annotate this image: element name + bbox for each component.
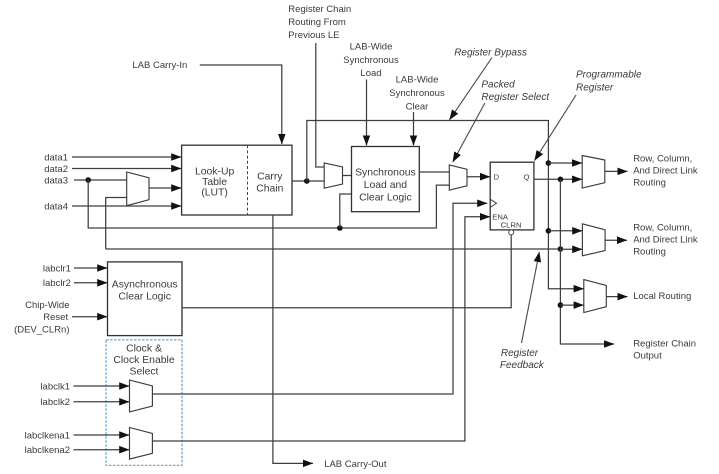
svg-text:data2: data2 [44, 164, 68, 175]
wire: clock enable to register ENA [152, 217, 490, 441]
svg-text:data1: data1 [44, 152, 68, 163]
label: Look-Up Table (LUT) [195, 167, 234, 199]
svg-text:Register: Register [576, 83, 614, 94]
wire: register chain input from previous LE [316, 43, 324, 167]
label: Register Chain Routing From Previous LE [288, 4, 351, 41]
svg-text:Q: Q [524, 173, 530, 182]
svg-text:Previous LE: Previous LE [288, 30, 339, 41]
wire: data3 input [74, 179, 127, 181]
junction: Q output node [558, 177, 564, 183]
mux: packed register select [449, 165, 467, 190]
svg-text:Table: Table [202, 177, 227, 188]
wire: packed mux output to register D [467, 176, 490, 178]
svg-text:(LUT): (LUT) [201, 188, 228, 199]
mux: output mux 3 (local routing) [584, 280, 607, 313]
svg-text:Register Chain: Register Chain [288, 4, 351, 15]
wire: labclr2 input [74, 282, 107, 284]
wire: branch up into sync load and clear logic [340, 194, 352, 228]
svg-text:data4: data4 [44, 201, 68, 212]
svg-text:Reset: Reset [43, 312, 68, 323]
svg-text:Clear: Clear [406, 101, 429, 112]
junction: registered output to mux3 [558, 302, 564, 308]
svg-text:Output: Output [633, 351, 662, 362]
wire: data3 branch to sync load data line [88, 180, 449, 228]
mux: clock enable select [130, 428, 153, 460]
svg-text:Clear Logic: Clear Logic [118, 292, 171, 303]
svg-text:data3: data3 [44, 175, 68, 186]
mux: data3/data4 input select [127, 172, 149, 206]
svg-text:Feedback: Feedback [500, 360, 545, 371]
svg-text:And Direct Link: And Direct Link [633, 166, 698, 177]
wire: register feedback to input mux [106, 198, 127, 250]
junction: sync data node [337, 225, 343, 231]
wire: Q output to mux1 [534, 178, 582, 180]
wire: registered output vertical [560, 179, 614, 344]
svg-text:Programmable: Programmable [576, 70, 642, 81]
wire: feedback branch into output mux 2 [560, 248, 582, 250]
annotation arrow: register bypass pointer [450, 58, 493, 120]
svg-text:Clock Enable: Clock Enable [113, 355, 174, 366]
svg-text:labclkena1: labclkena1 [25, 430, 70, 441]
svg-text:Clear Logic: Clear Logic [359, 193, 412, 204]
wire: data4 input [72, 205, 181, 207]
mux: output mux 2 (row/column) [582, 224, 605, 256]
label: LAB-Wide Synchronous Clear [389, 75, 445, 113]
block: Clock & Clock Enable Select (dashed) [106, 340, 182, 466]
svg-text:LAB Carry-In: LAB Carry-In [132, 60, 187, 71]
wire: labclk1 input [73, 385, 129, 387]
wire: synchronous load arrow [366, 80, 368, 146]
wire: input mux output to LUT [149, 187, 181, 189]
wire: LAB carry-out [273, 215, 313, 463]
wire: bypass branch to output mux 2 [548, 230, 582, 232]
wire: LAB carry-in into carry chain [200, 65, 282, 144]
junction: bypass node to mux1 [546, 160, 552, 166]
block: Asynchronous Clear Logic [108, 262, 183, 336]
wire: asynchronous clear output to CLRN [182, 235, 511, 308]
annotation arrow: register feedback pointer [522, 252, 540, 343]
svg-text:Load: Load [360, 68, 381, 79]
svg-text:Chain: Chain [256, 183, 283, 194]
svg-text:Register Chain: Register Chain [633, 339, 696, 350]
wire: register feedback line [106, 248, 561, 250]
svg-text:labclk1: labclk1 [40, 381, 70, 392]
label: Carry Chain [256, 172, 283, 195]
svg-text:Register Bypass: Register Bypass [454, 48, 527, 59]
svg-text:Row, Column,: Row, Column, [633, 223, 692, 234]
pin: clock edge triangle [490, 199, 496, 207]
svg-text:LAB-Wide: LAB-Wide [396, 75, 439, 86]
wire: labclkena1 input [73, 434, 129, 436]
svg-text:Load and: Load and [364, 180, 408, 191]
svg-text:Row, Column,: Row, Column, [633, 154, 692, 165]
label: Register Feedback (italic) [500, 348, 545, 371]
svg-text:LAB-Wide: LAB-Wide [350, 42, 393, 53]
svg-text:labclk2: labclk2 [40, 397, 70, 408]
svg-text:labclr1: labclr1 [43, 263, 71, 274]
label: Packed Register Select (italic) [481, 80, 550, 103]
junction: feedback node at register chain column [558, 246, 564, 252]
wire: bypass branch to output mux 1 [548, 162, 582, 164]
wire: mux2 output [605, 239, 627, 241]
svg-text:Carry: Carry [257, 172, 283, 183]
block: programmable register U1 [490, 162, 534, 230]
wire: chip-wide reset input [72, 316, 107, 318]
junction: bypass node to mux2 [546, 228, 552, 234]
svg-text:Packed: Packed [481, 80, 515, 91]
wire: data1 input [72, 156, 181, 158]
svg-text:labclr2: labclr2 [43, 278, 71, 289]
svg-text:D: D [494, 173, 500, 182]
wire: labclkena2 input [73, 449, 129, 451]
wire: clock to register [152, 203, 487, 394]
svg-text:Synchronous: Synchronous [343, 55, 399, 66]
svg-text:Local Routing: Local Routing [633, 291, 691, 302]
wire: sync logic output to packed mux [419, 171, 449, 173]
annotation arrow: programmable register pointer [535, 95, 577, 161]
label: Row, Column, And Direct Link Routing (upper) [633, 154, 698, 189]
mux: output mux 1 (row/column) [582, 156, 605, 189]
svg-text:(DEV_CLRn): (DEV_CLRn) [14, 325, 69, 336]
wire: sync mux output [343, 175, 352, 177]
svg-text:Look-Up: Look-Up [195, 167, 234, 178]
block: Synchronous Load and Clear Logic [352, 147, 420, 212]
mux: clock select [130, 380, 153, 412]
annotation arrow: packed register select pointer [453, 103, 485, 162]
wire: LUT/carry output [292, 180, 324, 182]
wire: data2 input [72, 168, 181, 170]
svg-text:Synchronous: Synchronous [389, 88, 445, 99]
wire: mux3 output [606, 296, 627, 298]
wire: labclr1 input [74, 267, 107, 269]
block: Look-Up Table (LUT) and carry chain [182, 145, 292, 215]
mux: synchronous-load input select [324, 163, 342, 188]
svg-text:Clock &: Clock & [126, 344, 162, 355]
svg-text:Asynchronous: Asynchronous [112, 279, 178, 290]
wire: branch to local routing mux [560, 304, 583, 306]
label: Programmable Register (italic) [576, 70, 642, 94]
junction: data3 node [85, 177, 91, 183]
svg-text:labclkena2: labclkena2 [25, 445, 70, 456]
wire: register bypass path [307, 121, 584, 289]
svg-text:LAB Carry-Out: LAB Carry-Out [324, 459, 387, 470]
wire: mux1 output [605, 170, 628, 172]
svg-text:Routing: Routing [633, 247, 666, 258]
svg-text:Synchronous: Synchronous [355, 168, 416, 179]
label: Chip-Wide Reset (DEV_CLRn) [14, 300, 69, 336]
svg-text:Routing From: Routing From [288, 17, 346, 28]
svg-text:Routing: Routing [633, 178, 666, 189]
label: Row, Column, And Direct Link Routing (lower) [633, 223, 698, 258]
svg-text:Select: Select [130, 367, 159, 378]
divider: dashed LUT / carry chain [247, 145, 249, 215]
svg-text:And Direct Link: And Direct Link [633, 235, 698, 246]
wire: labclk2 input [73, 401, 129, 403]
svg-text:Register Select: Register Select [481, 92, 550, 103]
svg-text:Register: Register [501, 348, 539, 359]
svg-text:Chip-Wide: Chip-Wide [25, 300, 69, 311]
label: LAB-Wide Synchronous Load [343, 42, 399, 80]
svg-text:CLRN: CLRN [501, 220, 522, 229]
label: Register Chain Output [633, 339, 696, 362]
pin: CLRN active-low bubble [509, 230, 514, 235]
wire: synchronous clear arrow [413, 112, 415, 145]
junction: LUT output node [304, 178, 310, 184]
